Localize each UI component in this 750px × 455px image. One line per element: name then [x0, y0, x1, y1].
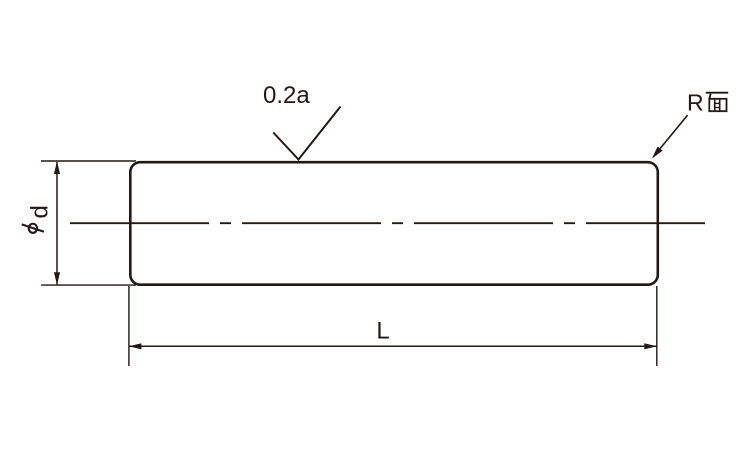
label phi (diameter symbol, drawn) [29, 224, 37, 233]
arrowhead right [644, 343, 657, 349]
svg-text:L: L [376, 318, 389, 345]
extension line left (for dimension L) [128, 286, 130, 366]
surface finish symbol (check mark on top face) [273, 107, 340, 160]
leader arrowhead [652, 147, 663, 159]
svg-text:0.2a: 0.2a [263, 82, 310, 109]
arrowhead up [54, 162, 60, 175]
svg-text:d: d [27, 205, 54, 218]
centerline (axis) [70, 222, 705, 224]
arrowhead down [54, 272, 60, 285]
extension line top (for dimension d) [41, 160, 136, 162]
arrowhead left [129, 343, 142, 349]
kanji MEN (drawn glyph) [706, 93, 729, 112]
extension line right (for dimension L) [656, 286, 658, 366]
extension line bottom (for dimension d) [41, 284, 136, 286]
pin body outline [130, 162, 658, 285]
dimension line L (horizontal, with arrowheads) [129, 345, 656, 347]
svg-text:R: R [687, 90, 704, 116]
leader line to rounded corner [655, 115, 688, 155]
dimension line phi-d (vertical, with arrowheads) [56, 162, 58, 285]
